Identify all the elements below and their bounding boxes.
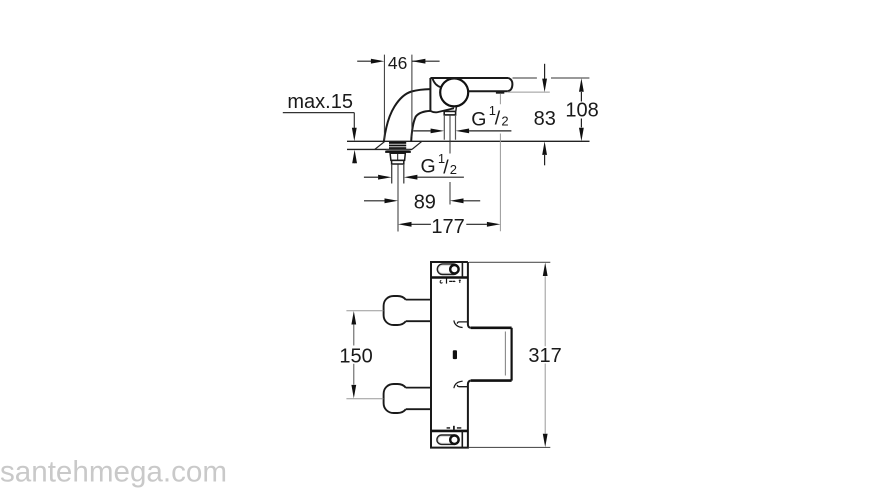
svg-text:G: G xyxy=(471,109,486,131)
upper handle centerline xyxy=(346,310,383,312)
dimension 150 xyxy=(351,311,356,325)
G 1/2 upper leader arrows xyxy=(413,130,431,132)
top cap inner edge xyxy=(461,262,463,278)
face hook top xyxy=(457,322,467,324)
centerline lower shank xyxy=(397,153,399,232)
arm top line xyxy=(430,77,508,79)
svg-text:46: 46 xyxy=(388,53,407,73)
svg-text:2: 2 xyxy=(501,114,508,129)
spout block bottom edge xyxy=(471,379,512,382)
dimension 46 extension lines xyxy=(384,55,412,141)
svg-text:/: / xyxy=(443,157,449,179)
svg-text:2: 2 xyxy=(450,162,457,177)
spout outer edge xyxy=(384,89,431,141)
dimension 89 xyxy=(364,200,385,202)
spout bottom extension line xyxy=(508,91,550,93)
spout block inner highlight xyxy=(504,332,506,376)
dimension 108 xyxy=(579,78,584,92)
aerator under spout end xyxy=(496,91,504,94)
thermostat button xyxy=(453,350,457,359)
upper shank pipe xyxy=(444,115,455,140)
bottom cap separation line xyxy=(431,430,468,433)
arm bottom line xyxy=(468,90,508,92)
threaded section through deck xyxy=(389,142,406,149)
deck top line xyxy=(347,140,590,142)
svg-text:max.15: max.15 xyxy=(287,91,353,113)
upper handle stem xyxy=(404,300,431,322)
top cap slot xyxy=(437,264,458,275)
face arc bottom xyxy=(454,381,463,388)
arm right rounded cap xyxy=(508,78,513,91)
svg-text:83: 83 xyxy=(534,108,556,130)
lower handle knob xyxy=(384,384,406,413)
deck bottom line xyxy=(347,148,412,150)
lower handle stem xyxy=(404,388,431,410)
outlet centerline xyxy=(499,94,501,232)
bottom cap slot xyxy=(437,435,459,444)
spout inner edge xyxy=(411,111,430,141)
body outline xyxy=(431,262,471,448)
dimension 317 extension lines xyxy=(469,262,550,447)
svg-text:/: / xyxy=(495,108,501,130)
washer under deck xyxy=(386,150,409,151)
G 1/2 lower leader arrows xyxy=(364,176,378,178)
spout block top edge xyxy=(471,326,512,329)
lower handle centerline xyxy=(346,398,383,400)
body bottom edge xyxy=(430,108,454,112)
dimension 46 arrows xyxy=(357,60,439,62)
deck break slant right xyxy=(412,141,422,149)
svg-text:108: 108 xyxy=(565,100,598,122)
dimension 177 xyxy=(398,222,412,227)
top cap separation line xyxy=(431,276,468,279)
dimension 83 xyxy=(544,64,546,79)
body left edge xyxy=(429,78,431,111)
svg-text:santehmega.com: santehmega.com xyxy=(0,456,227,489)
bottom icon row xyxy=(447,427,462,429)
max.15 leader underline xyxy=(283,113,355,128)
spout block right edge xyxy=(511,328,513,381)
knob circle xyxy=(440,78,468,106)
svg-text:150: 150 xyxy=(339,345,372,367)
svg-text:G: G xyxy=(421,155,436,177)
bottom cap knob circle xyxy=(450,436,458,444)
bottom cap inner edge xyxy=(461,431,463,448)
spout top extension line xyxy=(513,77,590,79)
mounting hex nut xyxy=(390,153,405,160)
deck break slant left xyxy=(375,141,385,149)
face arc top xyxy=(454,320,463,327)
fillet top-left of circle xyxy=(432,78,441,87)
face hook bottom xyxy=(457,385,467,387)
svg-text:89: 89 xyxy=(414,191,436,213)
svg-text:177: 177 xyxy=(431,216,464,238)
upper handle knob xyxy=(384,296,406,325)
max.15 arrow below deck xyxy=(352,150,357,164)
max.15 arrow to deck top xyxy=(352,128,357,142)
top cap knob circle xyxy=(450,265,458,273)
top icon row xyxy=(440,280,442,283)
collar under body xyxy=(444,111,455,115)
lower shank pipe xyxy=(392,164,404,184)
lower collar xyxy=(392,160,404,164)
centerline upper shank xyxy=(449,115,451,205)
dimension 317 xyxy=(543,263,548,277)
